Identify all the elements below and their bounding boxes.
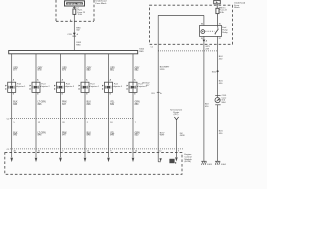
wire injector 3 supply drop [60, 54, 62, 82]
svg-text:30 A: 30 A [219, 11, 224, 14]
wire label YEL 849 (lower) [110, 132, 115, 136]
svg-text:5291: 5291 [160, 69, 166, 71]
wire label BLK/WHT (upper) [160, 67, 170, 71]
svg-text:Injector 1: Injector 1 [17, 85, 26, 88]
fuse block label [96, 0, 108, 5]
header box Hot At All Times [65, 1, 85, 6]
wire IPC to ECM [175, 120, 177, 157]
wire label BLK 845 (lower) [13, 132, 18, 136]
connector C2 label [7, 119, 11, 121]
pin B injector 4 [86, 94, 88, 96]
connector C1 dotted line [10, 148, 184, 150]
svg-text:(ECM): (ECM) [185, 161, 192, 163]
fuel injector 4 [79, 82, 90, 92]
pin 85 label [201, 38, 203, 40]
svg-text:Block: Block [234, 7, 240, 9]
wire fuse F25 to splice S105 [73, 14, 75, 50]
wire C101 to ground G104 [217, 105, 219, 162]
off-page reference To Instrument Cluster [170, 109, 183, 121]
fuel injector 2 label [41, 84, 50, 88]
arrow terminal injector 1 driver [10, 158, 13, 162]
pin 33 at connector C2 [62, 122, 65, 124]
fuse block underhood (dashed box) [56, 0, 94, 21]
fuse block 2 label [234, 1, 246, 9]
fuse F22 (ENG 1 fuse) [216, 4, 219, 14]
pin 14 at connector C1 [135, 151, 138, 153]
fuel injector 1 [5, 82, 16, 92]
pin B injector 5 [110, 94, 112, 96]
connector C101 label [222, 95, 228, 104]
pin 5 at connector C2 [14, 122, 16, 124]
wire label GRY 880 [87, 67, 92, 71]
connector C2 dotted line [10, 117, 133, 119]
wire label GRY 877 [13, 67, 18, 71]
pin 30 tick at box bottom [151, 47, 153, 49]
pin 2 at connector C2 [87, 122, 89, 124]
connector C101 [215, 95, 221, 104]
wire relay control loop [158, 15, 204, 161]
wire label DK GRN [180, 133, 185, 137]
wire injector 4 control [84, 92, 86, 157]
svg-text:C1: C1 [151, 47, 153, 49]
wire label GRY 881 [110, 67, 115, 71]
wire label BLK 450 (mid) [219, 81, 224, 85]
wire label YEL 849 [110, 101, 115, 105]
fuel pump relay [200, 26, 222, 37]
pin B injector 1 [13, 94, 15, 96]
fuel injector 1 label [17, 84, 26, 88]
wire label BLK 848 [87, 101, 92, 105]
connector arrow A on pin 85 wire [203, 40, 208, 43]
splice S112 [212, 70, 219, 73]
wire injector 1 supply drop [11, 54, 13, 82]
wire label LT GRN 846 (lower) [38, 132, 46, 136]
svg-text:Injector 5: Injector 5 [114, 85, 123, 88]
svg-text:Injector 4: Injector 4 [90, 85, 99, 88]
wire label PNK 847 [62, 101, 67, 105]
wire relay pin 85 to ground G103 [203, 36, 205, 161]
pin A injector 1 [13, 79, 15, 82]
wire label LT GRN 846 [38, 101, 46, 105]
fuel injector 5 [102, 82, 113, 92]
svg-text:RED: RED [139, 51, 144, 53]
wire fuse F22 to relay pin 30 [217, 14, 219, 26]
pin 87 label [219, 38, 221, 40]
fuel injector 4 label [90, 84, 99, 88]
svg-text:(IPC): (IPC) [174, 114, 179, 116]
wire injector 2 control [35, 92, 37, 157]
fuel injector 5 label [114, 84, 123, 88]
connector C2 tick on fuse feed [73, 7, 79, 9]
arrow terminal IPC at ECM [175, 157, 178, 161]
pin B label at fuse block exit [70, 20, 72, 22]
arrow terminal injector 5 driver [107, 158, 110, 162]
ground G103 [201, 161, 206, 165]
svg-text:9: 9 [178, 151, 179, 153]
pin B injector 6 [134, 94, 136, 96]
wire injector 4 supply drop [84, 54, 86, 82]
wire relay pin 87 down [217, 36, 219, 97]
pin 31 at connector C1 [38, 151, 41, 153]
wire label GRN 850 (lower) [135, 132, 140, 136]
fuel injector 3 label [66, 84, 75, 88]
arrow terminal injector 2 driver [35, 158, 38, 162]
wire label BLK 845 [13, 101, 18, 105]
svg-text:Injector 2: Injector 2 [41, 85, 50, 88]
wire injector 6 supply drop [132, 54, 134, 82]
wire label RED 342 (upper) [76, 27, 81, 31]
wire injector 1 control [11, 92, 13, 157]
ECM internal branch box [169, 159, 176, 164]
arrow terminal injector 6 driver [132, 158, 135, 162]
wire injector 5 supply drop [108, 54, 110, 82]
wire label RED 342 (lower) + splice S105 [76, 42, 82, 46]
fuse block underhood 2 (dashed box) [150, 5, 233, 44]
ECM label [185, 154, 193, 163]
fuel injector 6 label [138, 84, 147, 88]
pin A injector 4 [86, 79, 88, 82]
header box B+ [214, 0, 221, 4]
wire label PNK 847 (lower) [62, 132, 67, 136]
wire label GRY 238 [205, 46, 210, 50]
svg-text:87: 87 [219, 38, 221, 40]
ground G103 label [207, 164, 213, 166]
pin 7 at connector C2 [135, 122, 137, 124]
ECM (dashed box) [5, 153, 182, 175]
fuse F25 (INJ 1 fuse) [73, 6, 76, 14]
supply bus bar (splice pack) [9, 51, 138, 54]
wire injector 6 control [132, 92, 134, 157]
svg-text:12: 12 [159, 151, 161, 153]
wire label GRY 879 [62, 67, 67, 71]
pin 9 at connector C1 [110, 151, 112, 153]
wire injector 3 control [60, 92, 62, 157]
pin 30 label [219, 24, 221, 26]
wire injector 5 control [108, 92, 110, 157]
svg-text:RED: RED [76, 44, 81, 46]
arrow terminal injector 4 driver [84, 158, 87, 162]
fuel injector 3 [54, 82, 65, 92]
arrow terminal relay control at ECM [159, 151, 162, 162]
pin 12 at connector C2 [38, 122, 41, 124]
pin B injector 2 [37, 94, 39, 96]
pin 22 at connector C1 [87, 151, 90, 153]
fuse F25 value label [78, 10, 86, 16]
wire label BLK 450 (upper) [219, 56, 224, 60]
pin 46 at connector C1 [14, 151, 17, 153]
wire label BLK/WHT (lower) [160, 132, 165, 136]
arrow terminal injector 3 driver [59, 158, 62, 162]
pin 18 at connector C2 [110, 122, 113, 124]
ground G104 [215, 161, 220, 165]
pin B injector 3 [62, 94, 64, 96]
pin 3 at connector C1 [62, 151, 64, 153]
pin A injector 6 [134, 79, 136, 82]
wire label GRY 878 [38, 67, 43, 71]
fuel injector 6 [127, 82, 138, 92]
fuel pump relay label [222, 27, 228, 34]
connector C201 ticks [142, 83, 162, 95]
pin A injector 3 [62, 79, 64, 82]
svg-text:GRN: GRN [180, 135, 185, 137]
svg-text:C115: C115 [67, 34, 71, 36]
wire label BLK 848 (lower) [87, 132, 92, 136]
fuse F22 value label [219, 7, 227, 13]
fuel injector 2 [30, 82, 41, 92]
connector C1 label [7, 149, 11, 151]
svg-text:Injector 3: Injector 3 [66, 85, 75, 88]
wire label BLK 450a [205, 104, 209, 108]
pin 9 at connector C1 (IPC wire) [178, 151, 179, 153]
wire label BLK 450 (lower) [219, 131, 224, 135]
svg-text:WHT: WHT [160, 135, 165, 137]
inline connector C115 [67, 33, 78, 36]
svg-text:Fuse Block: Fuse Block [96, 3, 108, 5]
wire label GRN 850 [135, 101, 140, 105]
wire injector 2 supply drop [35, 54, 37, 82]
pin A injector 2 [37, 79, 39, 82]
pin 86 label [201, 24, 203, 26]
dotted tie line splice bus to relay [158, 50, 217, 52]
ground G104 label [221, 164, 227, 166]
bus end label [139, 49, 145, 53]
wire label GRY 882 [135, 67, 140, 71]
svg-text:15 A: 15 A [78, 13, 83, 16]
pin A injector 5 [110, 79, 112, 82]
